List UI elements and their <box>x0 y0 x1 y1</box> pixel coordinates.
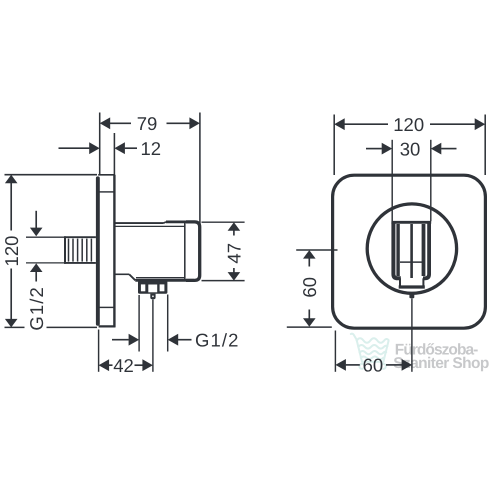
dimension 120 <box>334 118 485 130</box>
svg-text:12: 12 <box>141 138 162 159</box>
svg-text:79: 79 <box>137 113 158 134</box>
svg-text:120: 120 <box>393 114 424 135</box>
svg-text:120: 120 <box>1 236 22 267</box>
handshower holder front view <box>391 222 431 287</box>
extension line right of 120 <box>484 115 486 176</box>
svg-text:60: 60 <box>299 277 320 298</box>
escutcheon circle <box>367 204 456 293</box>
svg-text:47: 47 <box>224 243 245 264</box>
wall plate front view <box>333 175 486 328</box>
svg-text:G1/2: G1/2 <box>195 330 240 351</box>
dimension 120 vertical left <box>5 175 98 328</box>
outlet nut <box>138 281 167 294</box>
extension line from plate front bottom <box>98 330 100 372</box>
extension line left of bottom 60 <box>334 331 336 372</box>
dimension 79 <box>100 117 200 129</box>
watermark basket icon <box>351 334 389 369</box>
extension lines below nut <box>138 295 140 352</box>
body side view <box>114 222 199 281</box>
horizontal centerline <box>296 249 337 251</box>
dimension 42 <box>99 359 153 371</box>
dimension 12 <box>59 142 138 154</box>
svg-text:30: 30 <box>400 138 421 159</box>
outlet nipple <box>150 294 155 300</box>
dimension G1/2 pipe diameter <box>26 211 65 282</box>
svg-text:60: 60 <box>363 355 384 376</box>
dimension 60 vertical <box>287 250 332 327</box>
dimension G1/2 bottom <box>112 334 192 346</box>
extension lines of 30 <box>391 140 393 221</box>
dimension 47 <box>202 222 245 280</box>
holder nipple <box>409 293 414 298</box>
watermark text <box>393 341 489 371</box>
extension line right of 79 <box>199 113 201 225</box>
threaded pipe G1/2 <box>64 236 96 263</box>
extension line right of 12 <box>113 133 115 176</box>
svg-text:G1/2: G1/2 <box>26 286 47 331</box>
extension line left of 79/12 <box>99 113 101 175</box>
svg-text:42: 42 <box>113 355 134 376</box>
outlet centerline extension <box>152 299 154 371</box>
extension line left of 120 <box>333 115 335 176</box>
vertical centerline below <box>411 298 413 371</box>
wall plate side view <box>96 175 115 328</box>
dimension 30 <box>366 143 457 155</box>
dimension 60 bottom <box>335 359 412 371</box>
